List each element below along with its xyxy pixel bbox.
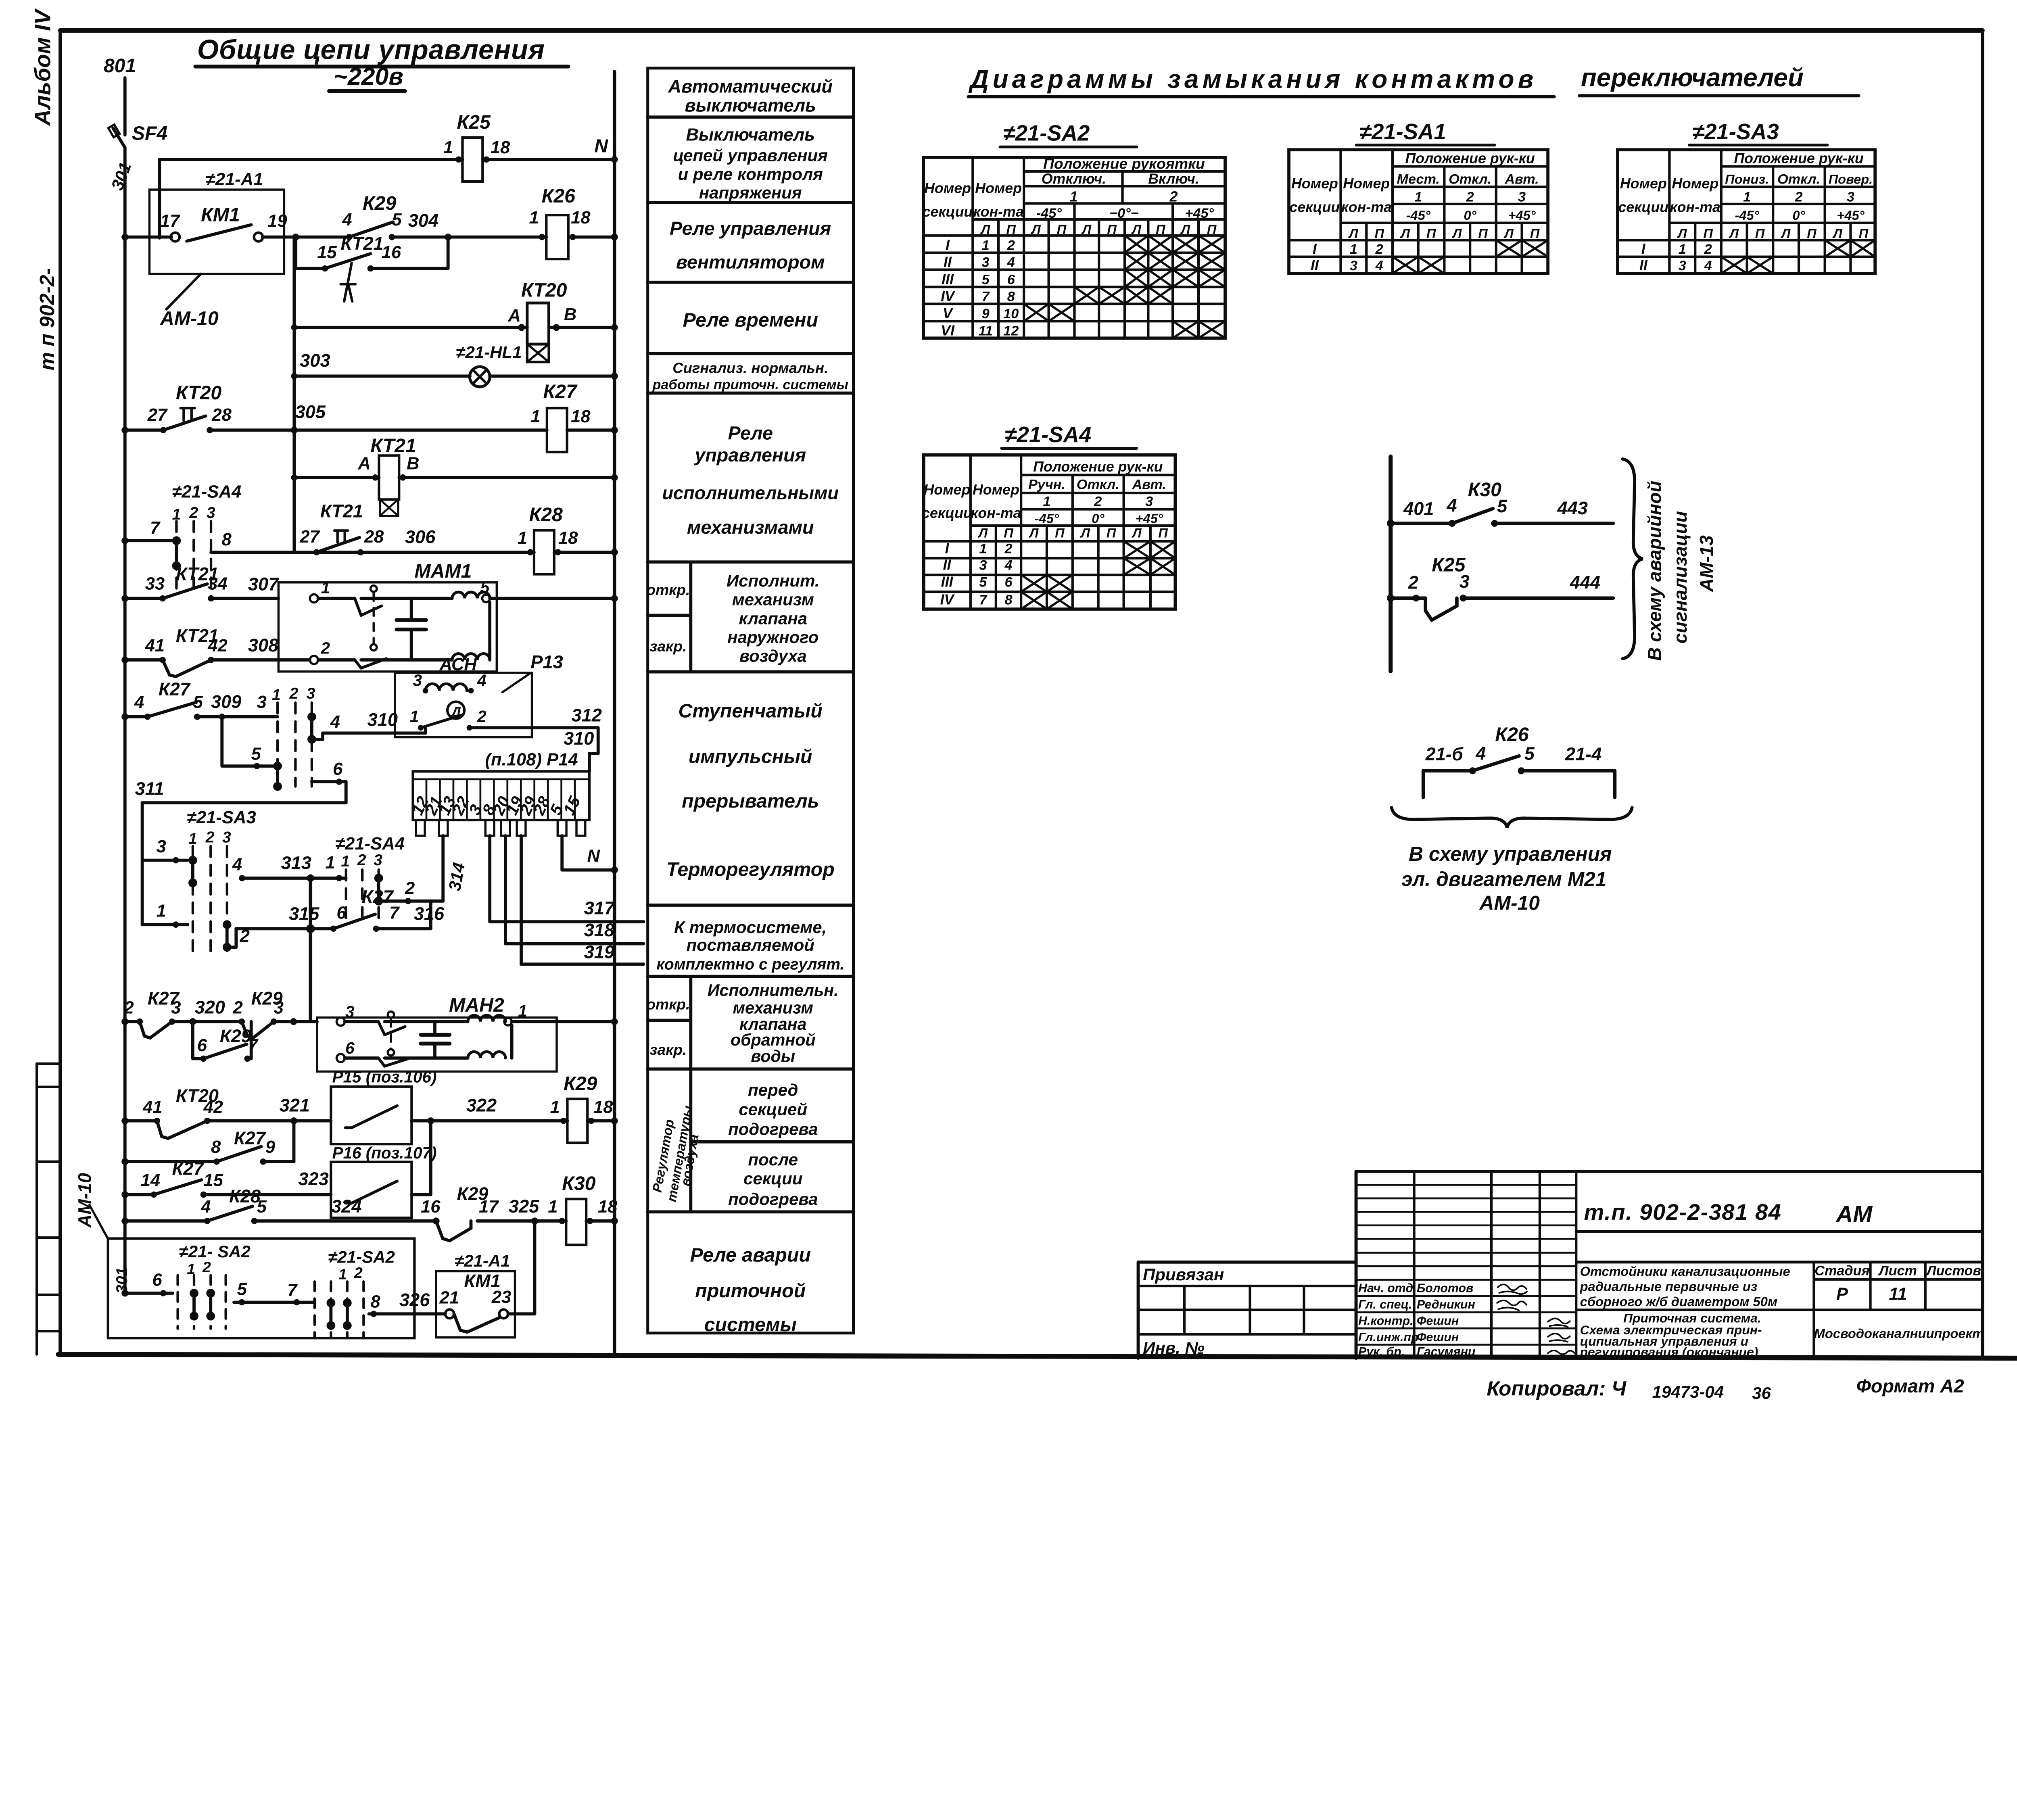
svg-text:и реле контроля: и реле контроля [678,165,823,184]
svg-text:Номер: Номер [1672,175,1718,192]
svg-text:АМ-10: АМ-10 [75,1173,95,1228]
svg-text:эл. двигателем М21: эл. двигателем М21 [1401,868,1607,890]
inductor MAN2 top [468,1015,505,1022]
svg-text:312: 312 [572,705,602,726]
svg-text:27: 27 [147,405,168,425]
wire rung KT20 coil [292,237,296,552]
wire 6 line [125,1291,173,1295]
svg-text:Л: Л [1677,226,1687,241]
svg-text:А: А [507,306,520,326]
wire rung 401-443 [1391,521,1452,526]
svg-text:1: 1 [272,687,281,704]
svg-text:≠21-SA2: ≠21-SA2 [328,1247,395,1266]
svg-text:П: П [1057,222,1067,237]
svg-text:П: П [1107,526,1117,541]
time relay coil KT21 [379,455,399,499]
svg-text:кон-та: кон-та [971,505,1021,521]
svg-text:КМ1: КМ1 [201,204,240,226]
svg-text:Диаграммы замыкания контакто: Диаграммы замыкания контактов [968,65,1537,94]
svg-text:23: 23 [491,1288,511,1307]
wire 5 drop [220,717,224,766]
svg-text:Терморегулятор: Терморегулятор [666,859,835,881]
svg-text:6: 6 [197,1036,207,1055]
svg-text:П: П [1478,226,1488,241]
svg-text:Авт.: Авт. [1132,477,1166,493]
wire 5-7 link [234,1300,314,1304]
svg-text:Ступенчатый: Ступенчатый [679,700,823,722]
left table Привязан [1138,1171,1356,1358]
contact KT20 27-28 [163,416,206,430]
svg-text:механизмами: механизмами [687,517,814,538]
svg-text:Формат А2: Формат А2 [1856,1375,1964,1396]
contact K29 2-3 [242,1022,274,1038]
svg-text:3: 3 [374,852,382,869]
svg-text:Номер: Номер [1291,175,1338,192]
node 801 feeder wire [123,78,127,135]
svg-text:П: П [1374,226,1384,241]
svg-text:закр.: закр. [649,638,687,655]
svg-text:наружного: наружного [727,628,818,647]
svg-text:34: 34 [208,574,227,594]
svg-text:Л: Л [1180,222,1190,237]
svg-text:Гл. спец.: Гл. спец. [1358,1298,1412,1311]
svg-text:К29: К29 [363,192,396,214]
svg-text:П: П [1055,526,1065,541]
svg-text:Откл.: Откл. [1449,171,1491,187]
svg-text:1: 1 [338,1266,347,1283]
svg-text:Л: Л [1080,526,1090,541]
svg-text:Инв. №: Инв. № [1143,1338,1204,1357]
svg-text:10: 10 [1003,306,1019,321]
svg-text:АМ-13: АМ-13 [1696,535,1717,592]
svg-text:41: 41 [145,636,165,655]
svg-text:IV: IV [941,288,956,304]
relay coil K28 [534,530,554,574]
svg-text:5: 5 [982,272,990,287]
svg-text:Л: Л [1503,226,1514,241]
vertical x989 [308,878,313,1022]
time relay coil KT20 [527,303,549,344]
svg-text:кон-та: кон-та [1670,199,1721,215]
svg-text:I: I [1313,241,1317,257]
svg-text:4: 4 [342,210,352,230]
svg-text:401: 401 [1403,498,1434,519]
svg-text:АМ-10: АМ-10 [160,308,219,330]
svg-text:2: 2 [240,927,250,946]
svg-text:N: N [594,135,608,156]
svg-text:36: 36 [1752,1384,1771,1403]
device box KM1 21-A1 [436,1271,515,1337]
svg-text:1: 1 [157,902,166,921]
contact K27 2-3 [140,1022,172,1038]
svg-text:Привязан: Привязан [1143,1265,1224,1284]
svg-text:Л: Л [980,222,990,237]
contact K27 4-5 [148,702,196,717]
svg-text:3: 3 [982,255,990,270]
svg-text:-45°: -45° [1035,511,1059,526]
svg-text:переключателей: переключателей [1581,63,1804,92]
svg-text:8: 8 [211,1137,221,1157]
svg-text:Положение рук-ки: Положение рук-ки [1033,459,1163,475]
svg-text:1: 1 [982,238,990,253]
device box P16 [331,1162,411,1218]
svg-text:А: А [357,454,370,474]
svg-text:П: П [1156,222,1166,237]
svg-text:≠21-SA4: ≠21-SA4 [172,482,242,502]
relay coil K26 [546,215,568,259]
central signature table [1414,1171,1576,1358]
device box ACN P13 [395,673,532,737]
svg-text:механизм: механизм [732,590,814,609]
table SA4 text [922,459,1168,607]
contact KT21 27-28 [313,549,320,555]
svg-text:3: 3 [222,829,231,846]
svg-text:443: 443 [1557,498,1588,518]
svg-text:Нач. отд.: Нач. отд. [1358,1282,1417,1295]
svg-text:П: П [1755,226,1765,241]
wire rung 313 [242,876,346,880]
MIDCOL [648,68,854,1333]
svg-text:316: 316 [414,904,445,924]
svg-text:2: 2 [189,504,198,522]
svg-text:исполнительными: исполнительными [662,483,838,503]
svg-text:Л: Л [1082,222,1092,237]
wire 326 [369,1312,445,1316]
svg-text:П: П [1207,222,1217,237]
svg-text:Л: Л [1832,226,1842,241]
contact K30 4-5 [1452,509,1493,524]
svg-text:5: 5 [257,1197,267,1217]
bottom annotations [1487,1375,1964,1403]
svg-text:+45°: +45° [1135,511,1163,526]
svg-text:Откл.: Откл. [1777,171,1820,187]
svg-text:2: 2 [320,639,330,657]
svg-text:1: 1 [518,528,527,548]
svg-text:КТ20: КТ20 [176,382,222,404]
svg-text:42: 42 [207,636,227,655]
svg-text:4: 4 [1447,495,1457,516]
svg-text:2: 2 [202,1259,211,1275]
svg-text:Отключ.: Отключ. [1042,171,1107,187]
svg-text:МАМ1: МАМ1 [414,560,472,582]
svg-text:2: 2 [405,879,415,898]
svg-text:27: 27 [299,527,320,547]
svg-text:К30: К30 [562,1173,595,1194]
svg-text:П: П [1006,222,1016,237]
svg-text:28: 28 [211,405,232,425]
svg-text:Листов: Листов [1925,1263,1981,1279]
svg-text:9: 9 [265,1137,276,1157]
svg-text:5: 5 [979,575,987,590]
svg-text:Р: Р [1836,1284,1848,1304]
wire rung 324-325 [125,1219,207,1223]
svg-text:16: 16 [382,243,401,262]
svg-text:3: 3 [274,998,284,1017]
svg-text:801: 801 [104,55,136,77]
svg-text:Общие цепи управления: Общие цепи управления [197,34,545,65]
svg-text:кон-та: кон-та [973,204,1023,220]
svg-text:Р13: Р13 [530,651,563,672]
svg-text:I: I [946,237,950,253]
svg-text:IV: IV [940,591,955,607]
svg-text:3: 3 [345,1002,355,1021]
svg-text:приточной: приточной [695,1280,806,1302]
svg-text:импульсный: импульсный [689,745,812,767]
svg-text:3: 3 [979,558,987,573]
svg-text:Мосводоканалниипроект: Мосводоканалниипроект [1814,1326,1984,1341]
svg-text:42: 42 [203,1098,223,1117]
svg-text:КТ20: КТ20 [521,280,567,301]
svg-text:2: 2 [1466,190,1474,205]
svg-text:секцией: секцией [739,1100,807,1119]
svg-text:1: 1 [530,407,540,426]
svg-text:Л: Л [1400,226,1410,241]
svg-text:309: 309 [211,691,241,712]
svg-text:4: 4 [232,855,242,875]
svg-text:Н.контр.: Н.контр. [1358,1315,1414,1328]
brace bottom [1392,808,1632,828]
actuator box MAN2 [317,1018,557,1072]
svg-text:41: 41 [142,1098,162,1117]
svg-text:324: 324 [331,1196,361,1217]
svg-text:18: 18 [571,407,591,426]
contact K25 2-3 NC [1426,598,1457,620]
svg-text:7: 7 [248,1036,259,1055]
svg-text:1: 1 [518,1002,527,1020]
svg-text:2: 2 [1169,189,1178,205]
svg-text:+45°: +45° [1185,206,1214,221]
svg-text:Реле управления: Реле управления [670,218,831,239]
svg-text:1: 1 [321,578,330,597]
svg-text:секции: секции [1289,199,1340,215]
contact KT21 15-16 bypass [294,237,298,269]
svg-text:3: 3 [1518,190,1526,205]
svg-text:12: 12 [1003,323,1019,338]
svg-text:2: 2 [1004,541,1012,556]
svg-text:I: I [945,540,949,556]
wire 6 link [312,780,346,784]
svg-text:1: 1 [548,1197,557,1217]
contact KT21 41-42 [163,660,211,676]
svg-text:≠21-HL1: ≠21-HL1 [456,342,522,361]
svg-text:2: 2 [1094,494,1102,509]
svg-text:комплектно с регулят.: комплектно с регулят. [656,956,844,973]
svg-text:301: 301 [113,1267,131,1294]
svg-text:АСН: АСН [439,655,478,674]
svg-text:II: II [1639,257,1648,273]
wire 312 [532,726,598,730]
svg-text:Ручн.: Ручн. [1028,477,1065,493]
legend column box [648,68,854,1333]
svg-text:Копировал: Ч: Копировал: Ч [1487,1377,1627,1400]
wire rung 305 K27 [125,428,163,432]
svg-text:В: В [407,454,419,474]
relay coil K25 [462,138,482,182]
svg-text:К27: К27 [543,381,578,403]
svg-text:4: 4 [477,671,487,690]
svg-text:3: 3 [157,837,166,856]
svg-text:8: 8 [222,530,232,549]
svg-text:секции: секции [1618,199,1668,215]
svg-text:305: 305 [295,402,326,422]
svg-text:3: 3 [1145,494,1153,509]
svg-text:цепей управления: цепей управления [673,146,827,165]
svg-text:18: 18 [593,1098,613,1117]
wire rung 323 [125,1193,154,1197]
LADDER2 [121,482,618,958]
svg-text:7: 7 [389,903,400,923]
svg-text:16: 16 [421,1197,441,1217]
svg-text:320: 320 [195,997,225,1017]
svg-text:2: 2 [1375,242,1383,257]
wire pin 317 [488,836,492,922]
svg-text:Положение рук-ки: Положение рук-ки [1405,150,1535,167]
svg-text:В схему управления: В схему управления [1409,843,1612,865]
svg-text:перед: перед [748,1080,798,1099]
svg-text:15: 15 [203,1171,223,1190]
svg-text:11: 11 [1889,1284,1907,1304]
svg-text:319: 319 [584,941,614,962]
svg-text:315: 315 [289,904,319,924]
svg-text:5: 5 [237,1280,247,1299]
svg-text:-45°: -45° [1036,206,1062,221]
svg-text:4: 4 [1475,743,1486,764]
svg-text:Болотов: Болотов [1417,1282,1473,1295]
svg-text:1: 1 [979,541,987,556]
svg-text:310: 310 [564,728,594,749]
border frame bottom [58,1355,2017,1358]
svg-text:регулирования (окончание): регулирования (окончание) [1580,1344,1758,1359]
wire N bus [612,71,617,1355]
svg-text:прерыватель: прерыватель [682,790,819,812]
svg-text:Авт.: Авт. [1504,171,1539,187]
table SA1 grid [1289,150,1548,273]
border frame right [1980,30,1985,1358]
wire K30 to KM1 [532,1221,537,1314]
svg-text:21-б: 21-б [1425,744,1464,764]
border frame left [58,30,63,1355]
svg-text:2: 2 [233,998,243,1017]
svg-text:313: 313 [281,852,311,873]
svg-text:3: 3 [257,693,267,712]
svg-text:1: 1 [1679,242,1686,257]
svg-text:6: 6 [333,760,343,779]
svg-text:III: III [941,574,954,590]
table SA4 X marks [1021,541,1175,609]
svg-text:Отстойники канализационные: Отстойники канализационные [1580,1264,1790,1279]
svg-text:2: 2 [354,1264,363,1281]
left edge cell column [35,1064,38,1355]
breaker SF4 [113,128,125,148]
svg-text:К26: К26 [542,185,576,207]
svg-text:сборного ж/б диаметром 50м: сборного ж/б диаметром 50м [1580,1294,1778,1309]
svg-text:МАН2: МАН2 [449,994,504,1016]
wire rung 320 [125,1020,140,1024]
svg-text:Сигнализ. нормальн.: Сигнализ. нормальн. [672,360,828,376]
svg-text:≠21-А1: ≠21-А1 [455,1251,510,1270]
svg-text:К30: К30 [1468,479,1501,501]
svg-text:≠21-SA2: ≠21-SA2 [1003,121,1090,146]
svg-text:1: 1 [1043,494,1050,509]
svg-text:2: 2 [477,707,487,726]
svg-text:1: 1 [341,853,350,870]
contact K29 6-7 bypass [191,1022,195,1059]
svg-text:1: 1 [325,853,335,872]
right info area [1576,1231,1982,1262]
svg-text:К28: К28 [229,1186,261,1206]
svg-text:III: III [942,271,954,287]
svg-text:П: П [1107,222,1117,237]
svg-text:≠21-SA3: ≠21-SA3 [1692,119,1779,144]
svg-text:работы приточн. системы: работы приточн. системы [652,377,848,392]
svg-text:секции: секции [743,1169,803,1188]
svg-text:1: 1 [1414,190,1422,205]
svg-text:секции: секции [923,204,973,220]
svg-text:1: 1 [529,208,539,227]
svg-text:механизм: механизм [733,998,813,1017]
contact KM1 21-23 [445,1309,454,1318]
svg-text:Мест.: Мест. [1397,171,1440,187]
svg-text:Номер: Номер [1620,175,1667,192]
wire pin 318 [503,836,507,944]
svg-text:П: П [1859,226,1869,241]
LADDER4 [75,1068,618,1338]
svg-text:2: 2 [1007,238,1015,253]
svg-text:Положение рукоятки: Положение рукоятки [1043,155,1205,172]
svg-text:К28: К28 [529,504,562,526]
svg-text:АМ-10: АМ-10 [1479,892,1540,914]
svg-text:выключатель: выключатель [685,95,816,115]
svg-text:21-4: 21-4 [1565,744,1601,764]
svg-text:-45°: -45° [1735,208,1759,223]
svg-text:1: 1 [410,707,419,726]
device box AM-10 [108,1239,415,1338]
contact KT21 33-34 [163,584,207,599]
svg-text:≠21-А1: ≠21-А1 [206,170,263,189]
svg-text:Альбом IV: Альбом IV [30,8,55,126]
svg-text:К27: К27 [159,679,191,699]
svg-text:1: 1 [550,1098,560,1117]
svg-text:18: 18 [558,528,578,548]
table SA1 text [1289,150,1540,273]
svg-text:14: 14 [141,1171,160,1190]
svg-text:управления: управления [694,445,806,465]
table SA4 grid [924,455,1175,609]
svg-text:1: 1 [1743,190,1751,205]
table SA2 X marks [1024,236,1225,338]
svg-text:Автоматический: Автоматический [668,76,833,97]
svg-text:откр.: откр. [646,581,690,598]
lamp HL1 [470,367,490,387]
svg-text:т.п. 902-2-381 84: т.п. 902-2-381 84 [1584,1199,1782,1225]
inductor MAM1 bottom [452,653,490,660]
svg-text:3: 3 [307,685,315,702]
svg-text:Номер: Номер [923,482,970,498]
relay coil K30 [566,1199,586,1245]
svg-text:7: 7 [982,289,990,304]
svg-text:0°: 0° [1792,208,1805,223]
svg-text:6: 6 [336,903,347,923]
table SA1 X marks [1393,240,1548,273]
svg-text:П: П [1530,226,1540,241]
svg-text:6: 6 [152,1270,162,1290]
wire 311 [142,801,346,805]
wire rung 309 [125,715,148,719]
table SA3 text [1618,150,1873,273]
svg-text:Л: Л [1131,222,1141,237]
svg-text:Л: Л [1029,526,1039,541]
inductor P13 [426,684,467,691]
